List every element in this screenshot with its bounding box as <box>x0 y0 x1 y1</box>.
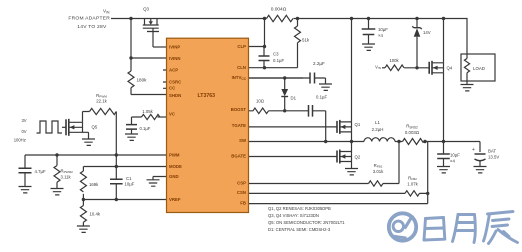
transistor Q2 (bottom NMOS) <box>336 151 338 163</box>
zener diode 14V <box>416 19 418 68</box>
node dot SW Q1/Q2 <box>350 140 353 143</box>
svg-text:CLP: CLP <box>237 44 246 49</box>
node dot rail sense left <box>263 17 266 20</box>
node dot rail Q1 drain <box>350 17 353 20</box>
wire RA to RSNS left <box>383 142 399 184</box>
node dot RPWM2 <box>55 153 58 156</box>
svg-text:3.11k: 3.11k <box>61 174 72 179</box>
svg-text:LOAD: LOAD <box>473 66 485 71</box>
svg-text:10Ω: 10Ω <box>256 98 265 103</box>
ground (4.7uF) <box>19 187 32 193</box>
wire INTVCC pin <box>249 77 304 79</box>
watermark logo circle <box>389 213 416 240</box>
node dot C1 bottom <box>115 198 118 201</box>
wire VC resistor to cap <box>132 117 142 125</box>
wire Q1 drain to rail <box>351 19 353 122</box>
svg-text:0.1µF: 0.1µF <box>140 126 151 131</box>
resistor 51k (vertical from rail to CLN) <box>295 19 301 68</box>
svg-text:GND: GND <box>169 174 179 179</box>
svg-text:22.1k: 22.1k <box>96 99 107 104</box>
resistor 10.4k <box>80 200 86 227</box>
svg-text:VREF: VREF <box>169 197 181 202</box>
svg-text:CLN: CLN <box>237 65 246 70</box>
node dot PWM wire <box>115 153 118 156</box>
node dot rail zener <box>415 17 418 20</box>
ground (Q2 source) <box>345 169 358 175</box>
ground (VC cap) <box>125 134 138 140</box>
svg-text:C1: C1 <box>126 176 132 181</box>
svg-text:BAT: BAT <box>488 149 496 154</box>
transistor Q4 (PMOS disconnect) <box>428 62 430 74</box>
svg-text:RFB2: RFB2 <box>408 176 417 182</box>
capacitor 10uF x4 output <box>443 142 445 167</box>
wire Q5 source to ground <box>83 132 89 139</box>
node dot gate Q4 <box>415 66 418 69</box>
svg-text:3.01k: 3.01k <box>373 169 384 174</box>
wire Q3 gate to pin <box>153 46 167 48</box>
resistor 169k <box>80 167 86 200</box>
node dot rail-left <box>129 17 132 20</box>
node dot rail input cap <box>367 17 370 20</box>
transistor Q3 (input PMOS on rail) <box>143 19 159 48</box>
svg-text:169k: 169k <box>89 182 99 187</box>
wire VIN to 100k <box>382 67 385 69</box>
node dot rail Q4 <box>442 17 445 20</box>
svg-text:FROM ADAPTER: FROM ADAPTER <box>68 16 110 22</box>
node dot CSN/FB <box>426 192 429 195</box>
resistor RIN 0.004ohm (inline top rail) <box>267 15 293 21</box>
wire BG pin to Q2 gate <box>249 156 338 158</box>
wire Q2 source to ground <box>351 162 353 169</box>
svg-text:IVINN: IVINN <box>169 56 180 61</box>
svg-text:Q1, Q2 RENESAS: RJK0305DPB: Q1, Q2 RENESAS: RJK0305DPB <box>268 206 331 211</box>
svg-text:0V: 0V <box>21 129 26 134</box>
svg-text:RSNS2: RSNS2 <box>406 124 418 130</box>
svg-text:TGATE: TGATE <box>232 123 246 128</box>
svg-text:1.05k: 1.05k <box>142 109 153 114</box>
wire BOOST <box>269 110 309 112</box>
svg-text:IVINP: IVINP <box>169 44 180 49</box>
node dot SW boost return <box>324 140 327 143</box>
svg-text:INTVCC: INTVCC <box>232 75 247 81</box>
svg-text:14V TO 28V: 14V TO 28V <box>77 24 107 30</box>
svg-text:LT3763: LT3763 <box>198 93 216 99</box>
svg-text:BGATE: BGATE <box>231 154 246 159</box>
svg-text:CSRC: CSRC <box>169 79 181 84</box>
IC pin stubs <box>163 70 167 88</box>
svg-text:CSP: CSP <box>237 180 246 185</box>
wire Q2 drain to SW node <box>351 142 353 152</box>
svg-text:VC: VC <box>169 111 175 116</box>
wire L1 to RSNS <box>395 141 403 143</box>
diode D1 <box>284 78 286 111</box>
resistor RPWM 22.1k <box>90 108 117 114</box>
svg-text:4.7µF: 4.7µF <box>35 169 46 174</box>
wire output node <box>424 142 480 153</box>
svg-text:100k: 100k <box>389 58 399 63</box>
wire FB pin <box>249 203 428 205</box>
watermark character CHEN <box>484 212 518 244</box>
ground (input cap) <box>362 44 375 50</box>
svg-text:CSN: CSN <box>237 190 246 195</box>
resistor RA 3.01k (CSP filter) <box>369 181 384 186</box>
svg-text:100Hz: 100Hz <box>14 137 26 142</box>
ground (LOAD) <box>461 81 474 91</box>
resistor 1.05k (VC) <box>142 114 160 119</box>
svg-text:PWM: PWM <box>169 153 180 158</box>
svg-text:BOOST: BOOST <box>231 107 247 112</box>
svg-text:SW: SW <box>239 138 247 143</box>
ground (10.4k) <box>77 226 90 232</box>
svg-text:×4: ×4 <box>378 33 384 38</box>
node dot INTVCC/D1 <box>283 76 286 79</box>
ground (GND pin) <box>147 180 160 186</box>
svg-text:0.004Ω: 0.004Ω <box>271 7 287 13</box>
node dot CLP <box>263 45 266 48</box>
ground (RPWM2) <box>51 189 64 195</box>
svg-text:RPWM2: RPWM2 <box>61 168 74 174</box>
watermark character YUE <box>453 215 476 243</box>
node dot divider <box>82 198 85 201</box>
inductor L1 2.2uH <box>364 138 395 142</box>
svg-text:1.07k: 1.07k <box>407 182 418 187</box>
wire PWM pin <box>25 155 167 168</box>
resistor RSNS2 0.003ohm (inline output) <box>403 139 425 145</box>
svg-text:D1: D1 <box>291 96 297 101</box>
wire CSN pin <box>249 192 406 194</box>
resistor 180k (vertical in left column) <box>128 58 167 95</box>
svg-text:0.003Ω: 0.003Ω <box>405 130 420 135</box>
resistor inside LOAD <box>464 54 469 81</box>
svg-text:14V: 14V <box>423 30 431 35</box>
node dot rail sense right <box>296 17 299 20</box>
node dot RSNS right <box>423 140 426 143</box>
ground (2.2uF) <box>319 84 332 90</box>
svg-text:0.1µF: 0.1µF <box>273 58 284 63</box>
notes text block <box>268 206 345 232</box>
svg-text:2.2µF: 2.2µF <box>313 61 325 66</box>
wire Q1 source to SW node <box>351 132 353 142</box>
svg-text:SHDN: SHDN <box>169 93 181 98</box>
node dot BOOST/D1 <box>283 109 286 112</box>
wire CLP pin to rail <box>249 19 265 47</box>
wire Q4 drain to rail <box>443 19 445 63</box>
wire SW pin to inductor <box>249 141 365 143</box>
wire 100k to Q4 gate <box>404 67 429 69</box>
svg-text:VIN: VIN <box>375 64 381 70</box>
svg-text:51k: 51k <box>302 38 310 43</box>
wire RB to RSNS right <box>420 142 428 204</box>
node dot output G4 <box>442 140 445 143</box>
wire MODE pin <box>83 166 166 168</box>
svg-text:L1: L1 <box>375 120 380 125</box>
wire left column from rail <box>131 19 167 59</box>
capacitor 0.1uF (boost) <box>309 105 313 117</box>
node dot RSNS left <box>397 140 400 143</box>
LOAD box <box>461 54 495 81</box>
capacitor 0.1uF (VC) <box>126 125 137 130</box>
resistor RB 1.07k (CSN filter) <box>405 191 420 196</box>
ground (output cap) <box>437 167 450 173</box>
PWM square wave source <box>37 121 63 133</box>
ground (battery) <box>474 167 487 173</box>
svg-text:Q3, Q4 VISHAY: Si7123DN: Q3, Q4 VISHAY: Si7123DN <box>268 213 319 218</box>
transistor Q1 (top NMOS) <box>336 121 338 133</box>
svg-text:+: + <box>472 147 475 153</box>
resistor 100k (Q4 gate) <box>385 65 404 71</box>
resistor 10ohm (BOOST pin) <box>249 108 269 114</box>
ground (Q5) <box>82 139 95 145</box>
svg-text:Q3: Q3 <box>143 7 149 12</box>
svg-text:MODE: MODE <box>169 164 182 169</box>
wire VREF pin <box>83 199 166 201</box>
wire RPWM to vertical <box>115 112 117 180</box>
wire Q4 source to output <box>443 73 445 142</box>
svg-text:10µF: 10µF <box>125 181 135 186</box>
wire top rail VIN <box>111 19 467 55</box>
capacitor 4.7uF <box>19 168 32 173</box>
svg-text:3V: 3V <box>21 118 26 123</box>
transistor Q5 (PWM NMOS) <box>65 119 67 135</box>
svg-text:2.2µH: 2.2µH <box>372 127 384 132</box>
svg-text:Q4: Q4 <box>447 66 453 71</box>
svg-text:C3: C3 <box>273 52 279 57</box>
capacitor 10uF x4 input <box>368 19 370 45</box>
svg-text:D1: CENTRAL SEMI: CMDSH2-3: D1: CENTRAL SEMI: CMDSH2-3 <box>268 227 331 232</box>
wire boost cap to SW <box>313 111 326 142</box>
wire TG pin to Q1 gate <box>249 126 338 128</box>
wire VC pin <box>158 116 167 118</box>
wire GND pin <box>153 177 167 180</box>
node dot left column <box>129 56 132 59</box>
wire Q5 drain up <box>83 112 90 123</box>
watermark character RI <box>424 218 445 241</box>
svg-text:Q5: ON SEMICONDUCTOR: 2N7002LT: Q5: ON SEMICONDUCTOR: 2N7002LT1 <box>268 220 345 225</box>
capacitor C1 10uF <box>110 179 123 184</box>
svg-text:0.1µF: 0.1µF <box>316 95 327 100</box>
svg-text:Q2: Q2 <box>355 155 361 160</box>
svg-text:×4: ×4 <box>450 159 456 164</box>
svg-text:Q5: Q5 <box>92 124 98 129</box>
node dot MODE wire <box>115 165 118 168</box>
svg-text:10µF: 10µF <box>378 27 388 32</box>
svg-text:180k: 180k <box>137 78 148 83</box>
capacitor C3 0.1uF <box>263 47 265 68</box>
svg-text:10µF: 10µF <box>450 153 460 158</box>
svg-text:Q1: Q1 <box>355 122 361 127</box>
svg-text:CC: CC <box>169 86 175 91</box>
resistor RPWM2 3.11k <box>54 155 60 189</box>
node dot C3 bottom <box>263 66 266 69</box>
svg-text:FB: FB <box>240 200 246 205</box>
svg-text:ACP: ACP <box>169 67 178 72</box>
capacitor 2.2uF <box>249 77 311 79</box>
capacitor BAT 13.5V (polarized) <box>475 153 486 155</box>
svg-text:10.4k: 10.4k <box>90 211 101 216</box>
wire CLN pin <box>249 67 298 69</box>
svg-text:RFB1: RFB1 <box>374 163 383 169</box>
svg-text:13.5V: 13.5V <box>488 155 499 160</box>
op-amp U1 LT3763 controller IC body <box>167 38 249 212</box>
wire CSP pin <box>249 183 369 185</box>
wire PWM to Q5 gate <box>62 126 66 128</box>
svg-text:VIN: VIN <box>103 9 110 15</box>
